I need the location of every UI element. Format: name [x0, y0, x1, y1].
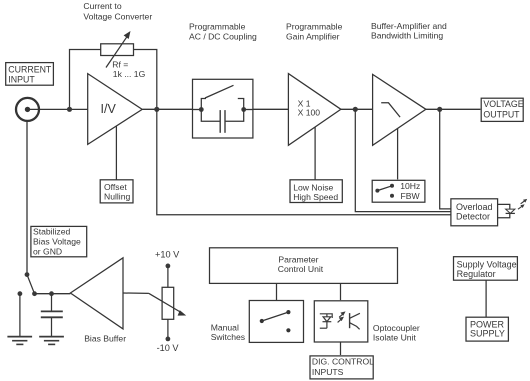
svg-text:Nulling: Nulling	[104, 192, 130, 202]
svg-text:Voltage Converter: Voltage Converter	[83, 11, 152, 21]
svg-text:VOLTAGE: VOLTAGE	[483, 99, 523, 109]
svg-text:or GND: or GND	[33, 247, 62, 257]
svg-text:OUTPUT: OUTPUT	[483, 109, 520, 119]
svg-text:Isolate Unit: Isolate Unit	[373, 332, 417, 342]
svg-text:1k ... 1G: 1k ... 1G	[113, 69, 146, 79]
svg-text:10Hz: 10Hz	[400, 181, 420, 191]
svg-text:Current to: Current to	[83, 1, 121, 11]
svg-text:Detector: Detector	[456, 212, 490, 222]
svg-text:Bias Voltage: Bias Voltage	[33, 237, 81, 247]
svg-text:Switches: Switches	[211, 332, 245, 342]
svg-text:AC / DC Coupling: AC / DC Coupling	[189, 31, 257, 41]
svg-text:DIG. CONTROL: DIG. CONTROL	[312, 357, 374, 367]
svg-text:CURRENT: CURRENT	[8, 64, 52, 74]
svg-text:Parameter: Parameter	[278, 254, 318, 264]
svg-text:SUPPLY: SUPPLY	[470, 329, 505, 339]
svg-text:+10 V: +10 V	[155, 250, 180, 260]
svg-text:Programmable: Programmable	[286, 22, 343, 32]
svg-text:Stabilized: Stabilized	[33, 227, 70, 237]
svg-text:-10 V: -10 V	[157, 343, 180, 353]
svg-text:X 100: X 100	[298, 108, 321, 118]
svg-text:Offset: Offset	[104, 182, 127, 192]
svg-text:I/V: I/V	[101, 102, 117, 116]
svg-text:Control Unit: Control Unit	[278, 264, 324, 274]
svg-text:Programmable: Programmable	[189, 22, 246, 32]
svg-text:Low Noise: Low Noise	[293, 182, 333, 192]
svg-text:Gain Amplifier: Gain Amplifier	[286, 31, 340, 41]
svg-text:INPUT: INPUT	[8, 74, 35, 84]
svg-text:High Speed: High Speed	[293, 192, 338, 202]
svg-text:Overload: Overload	[456, 202, 493, 212]
svg-text:Supply Voltage: Supply Voltage	[457, 260, 517, 270]
svg-text:Optocoupler: Optocoupler	[373, 323, 420, 333]
svg-text:INPUTS: INPUTS	[312, 367, 344, 377]
svg-text:Bias Buffer: Bias Buffer	[84, 334, 126, 344]
svg-text:Rf =: Rf =	[112, 59, 128, 69]
svg-text:Bandwidth Limiting: Bandwidth Limiting	[371, 31, 443, 41]
svg-text:FBW: FBW	[401, 191, 421, 201]
svg-text:Regulator: Regulator	[457, 269, 496, 279]
svg-text:Buffer-Amplifier and: Buffer-Amplifier and	[371, 21, 447, 31]
